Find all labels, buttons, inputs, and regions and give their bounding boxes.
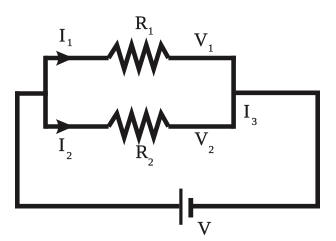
svg-text:2: 2 [148, 157, 154, 169]
arrow I1 (current direction, top branch) [56, 51, 74, 66]
wire middle-right horizontal (node B to outer loop) [234, 91, 320, 96]
svg-text:R: R [135, 13, 148, 34]
wire bottom-left (battery to left loop) [15, 204, 179, 209]
wire top branch right segment [168, 56, 236, 61]
svg-text:I: I [244, 102, 250, 123]
battery V: long plate [179, 189, 182, 225]
wire outer-right vertical [315, 91, 320, 209]
svg-text:1: 1 [148, 26, 154, 38]
svg-text:2: 2 [67, 150, 73, 162]
wire outer-left vertical [15, 91, 20, 208]
wire bottom branch right segment [168, 124, 233, 129]
svg-text:3: 3 [252, 116, 258, 128]
battery V: short plate [188, 198, 193, 218]
svg-text:V: V [198, 219, 212, 240]
resistor R1 [109, 45, 169, 69]
resistor R2 [109, 114, 169, 138]
svg-text:V: V [195, 129, 209, 150]
wire inner-right vertical (node B) [231, 56, 236, 129]
svg-text:I: I [59, 135, 65, 156]
arrow I2 (current direction, bottom branch) [56, 119, 74, 134]
wire bottom branch left segment [46, 124, 109, 129]
wire middle-left horizontal (node A to outer loop) [15, 91, 48, 96]
svg-text:I: I [59, 26, 65, 47]
svg-text:1: 1 [208, 43, 214, 55]
svg-text:1: 1 [67, 37, 73, 49]
wire bottom-right (battery to right loop) [193, 204, 320, 209]
wire top branch left segment [46, 56, 109, 61]
svg-text:V: V [194, 30, 208, 51]
svg-text:R: R [136, 142, 149, 163]
svg-text:2: 2 [209, 144, 215, 156]
wire inner-left vertical (node A) [43, 56, 48, 129]
